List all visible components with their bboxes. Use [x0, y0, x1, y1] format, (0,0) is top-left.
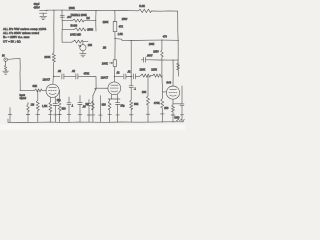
- capacitor C9 25uF: [116, 99, 126, 122]
- label 1M mid: [103, 47, 106, 50]
- svg-text:5.6K: 5.6K: [139, 4, 145, 8]
- label input signal: [20, 94, 27, 100]
- svg-text:220K: 220K: [103, 21, 109, 24]
- svg-text:.02: .02: [58, 69, 62, 73]
- wire tone stack right: [95, 11, 97, 31]
- svg-text:820: 820: [62, 107, 67, 110]
- svg-text:470: 470: [163, 35, 168, 38]
- resistor R3 1M grid leak: [31, 90, 40, 122]
- wire B+ top bus: [46, 10, 178, 11]
- tube V1a 12AX7: [43, 79, 60, 98]
- capacitor C11 cathode bypass: [173, 86, 184, 122]
- svg-text:1M: 1M: [103, 47, 106, 50]
- label bass: [71, 24, 78, 27]
- wire filter drop: [129, 41, 139, 123]
- wire coupling row 2: [114, 76, 152, 77]
- wire left stub: [8, 108, 12, 123]
- svg-text:250K: 250K: [87, 28, 93, 31]
- capacitor C5 .68: [78, 95, 86, 122]
- svg-text:.0047: .0047: [147, 54, 154, 57]
- capacitor C1 40uF filter: [34, 2, 47, 19]
- tube V1b 12AX7: [101, 76, 121, 94]
- resistor R7 250K bass: [62, 28, 93, 31]
- resistor R15 820: [102, 99, 112, 122]
- svg-text:250V: 250V: [122, 18, 128, 21]
- capacitor C3 .02uF: [72, 69, 78, 79]
- resistor R1 68K grid stop: [33, 84, 43, 92]
- capacitor C8 .02: [127, 71, 135, 79]
- wire V1a plate feed: [53, 10, 54, 84]
- svg-text:1M: 1M: [31, 103, 35, 107]
- capacitor C7 .02: [116, 71, 126, 79]
- resistor R10 47K: [113, 22, 123, 32]
- svg-text:TREBLE 250K: TREBLE 250K: [71, 14, 88, 17]
- resistor R13 220K: [151, 69, 162, 78]
- svg-text:OT = 5K : 8Ω: OT = 5K : 8Ω: [3, 40, 21, 44]
- capacitor C2 .02uF: [58, 69, 64, 79]
- label 220K left: [103, 21, 109, 24]
- svg-text:470K: 470K: [84, 72, 90, 75]
- svg-text:1.5K: 1.5K: [118, 33, 123, 36]
- svg-text:220K: 220K: [151, 69, 157, 72]
- wire V1b cathode: [108, 94, 120, 99]
- tube V2 6V6: [166, 80, 179, 99]
- svg-text:100K: 100K: [149, 43, 155, 46]
- resistor R4 1.5K cathode: [42, 97, 52, 122]
- label 100K screen: [149, 43, 155, 46]
- svg-text:470K: 470K: [154, 102, 160, 105]
- wire V1b grid: [96, 87, 108, 89]
- label treble: [71, 14, 88, 17]
- capacitor C4 25uF bypass: [53, 97, 61, 122]
- potentiometer VR1 10K: [78, 42, 92, 57]
- svg-text:25µ: 25µ: [120, 105, 125, 108]
- svg-text:100K: 100K: [44, 55, 50, 59]
- svg-text:250: 250: [164, 107, 169, 110]
- resistor ground drop: [26, 103, 30, 123]
- label 470 screen: [163, 35, 168, 38]
- svg-text:1.5K: 1.5K: [42, 104, 48, 108]
- svg-text:450V: 450V: [34, 6, 40, 10]
- junction dots: [20, 10, 179, 91]
- svg-text:12AX7: 12AX7: [101, 76, 109, 79]
- svg-text:BASS: BASS: [71, 24, 78, 27]
- svg-text:IN: IN: [2, 53, 5, 57]
- note legend: [3, 27, 46, 44]
- wire V2 plate: [172, 60, 174, 86]
- resistor R5 820 ohm: [58, 91, 66, 123]
- wire ground bus: [8, 119, 184, 123]
- resistor R18 470K grid leak: [154, 92, 164, 122]
- paper lower margin: [0, 125, 185, 130]
- svg-text:.02: .02: [72, 69, 76, 73]
- label 470K node: [84, 72, 90, 75]
- svg-text:47K: 47K: [119, 26, 124, 29]
- wire to V2 grid: [162, 76, 167, 92]
- resistor R17 250 cathode: [164, 99, 175, 122]
- resistor R12 220K: [140, 68, 151, 77]
- svg-text:820: 820: [102, 103, 107, 106]
- svg-text:10K: 10K: [88, 44, 93, 47]
- wire right B+ bus: [177, 11, 180, 76]
- capacitor C5b: [87, 100, 91, 123]
- capacitor C6 .047 treble: [60, 15, 72, 19]
- label mid: [70, 33, 81, 36]
- wire V1b plate feed: [113, 11, 116, 82]
- svg-text:signal: signal: [20, 97, 27, 100]
- resistor R14 screen bus: [177, 62, 180, 70]
- svg-text:220K: 220K: [140, 68, 146, 71]
- svg-text:6V6: 6V6: [166, 80, 171, 84]
- wire NFB: [150, 59, 178, 61]
- label 285V: [153, 51, 159, 54]
- svg-text:68K: 68K: [33, 84, 38, 88]
- svg-text:12AX7: 12AX7: [43, 79, 51, 82]
- svg-text:40µF: 40µF: [34, 2, 41, 6]
- svg-text:100K: 100K: [102, 61, 108, 65]
- svg-text:285V: 285V: [153, 51, 159, 54]
- svg-text:250K: 250K: [69, 6, 75, 10]
- resistor R19 10K: [142, 76, 150, 122]
- ground chassis label: [174, 117, 181, 121]
- svg-text:10K: 10K: [142, 91, 147, 94]
- capacitor C5a .1: [67, 97, 74, 122]
- potentiometer VR2 1M volume: [85, 89, 96, 123]
- resistor R8 mid: [72, 40, 88, 43]
- resistor R6 1M slope: [62, 17, 96, 22]
- resistor R20 screen: [161, 49, 164, 57]
- svg-text:B+ = 285V d.c. max: B+ = 285V d.c. max: [3, 35, 30, 39]
- svg-text:1M: 1M: [86, 17, 89, 20]
- capacitor C10 NFB: [141, 54, 153, 62]
- label mid cluster: [118, 18, 128, 36]
- svg-text:1M: 1M: [85, 102, 89, 106]
- svg-text:56K: 56K: [134, 103, 139, 106]
- resistor R9 5.6K dropper: [137, 4, 152, 13]
- svg-text:100K MID: 100K MID: [70, 33, 81, 36]
- resistor R11 100K plate: [102, 60, 117, 67]
- input jack J1: [2, 53, 8, 74]
- wire coupling row 1: [54, 76, 108, 88]
- wire tone stack left: [62, 11, 72, 43]
- wire screen drop: [161, 40, 163, 76]
- resistor R2 100K plate load: [44, 52, 55, 62]
- wire screen line: [115, 39, 178, 41]
- wire input to grid: [7, 59, 46, 91]
- wire drop grid return: [99, 96, 103, 123]
- label 250K top: [69, 6, 75, 10]
